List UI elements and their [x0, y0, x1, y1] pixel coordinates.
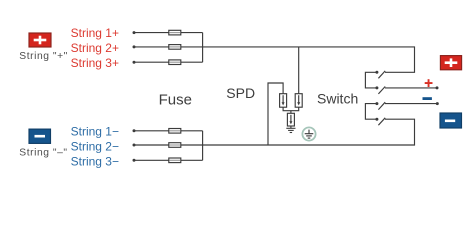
- wire string3-: [134, 159, 203, 161]
- wire negative main bus: [203, 119, 415, 145]
- wire positive bus vertical: [202, 33, 204, 63]
- wire SPD left leg: [268, 83, 283, 145]
- label output minus: [423, 97, 432, 100]
- ground: [286, 128, 295, 132]
- protective earth symbol: [302, 127, 315, 140]
- switch blade1: [378, 71, 385, 78]
- terminal block positive left: [29, 33, 51, 47]
- terminal block positive right: [440, 56, 461, 70]
- fuse element lines: [170, 33, 180, 161]
- fuse F5: [169, 143, 181, 148]
- switch blade3: [378, 102, 385, 109]
- svg-text:Fuse: Fuse: [159, 91, 192, 108]
- wire positive main bus: [203, 47, 415, 72]
- node string1+ terminal: [133, 31, 136, 34]
- node positive output: [436, 86, 439, 89]
- svg-text:String 3+: String 3+: [71, 56, 119, 70]
- svg-text:String 2−: String 2−: [71, 140, 119, 154]
- node switch contact4: [375, 118, 378, 121]
- switch blade4: [378, 118, 385, 125]
- node string2+ terminal: [133, 45, 136, 48]
- node switch contact1: [375, 71, 378, 74]
- wire string1+: [134, 32, 203, 34]
- switch pole2 bracket: [365, 104, 377, 120]
- wire negative bus vertical: [202, 131, 204, 161]
- varistor SPD left: [280, 94, 287, 108]
- svg-text:Switch: Switch: [317, 90, 358, 106]
- switch pole1 bracket: [365, 72, 377, 88]
- label output plus: [425, 79, 433, 87]
- wire SPD join: [283, 107, 299, 111]
- svg-text:String 1+: String 1+: [71, 26, 119, 40]
- switch blade2: [378, 87, 385, 94]
- fuse F3: [169, 60, 181, 65]
- node switch contact2: [375, 86, 378, 89]
- fuse F2: [169, 45, 181, 50]
- fuse F6: [169, 158, 181, 163]
- varistor SPD center: [287, 113, 294, 126]
- wire positive output: [385, 87, 437, 89]
- svg-text:String "+": String "+": [19, 51, 68, 62]
- svg-text:String 1−: String 1−: [71, 125, 119, 139]
- varistor SPD right: [295, 94, 302, 108]
- svg-text:String "–": String "–": [19, 148, 67, 159]
- wire SPD right leg: [298, 47, 300, 94]
- node negative output: [436, 102, 439, 105]
- terminal block negative left: [29, 129, 51, 143]
- wire string2-: [134, 144, 203, 146]
- node string3+ terminal: [133, 61, 136, 64]
- fuse F4: [169, 129, 181, 134]
- terminal block negative right: [440, 113, 462, 128]
- wire string1-: [134, 130, 203, 132]
- wire to ground: [290, 126, 292, 128]
- wire SPD center drop: [290, 111, 292, 114]
- fuse F1: [169, 30, 181, 35]
- wire string3+: [134, 61, 203, 63]
- node string3- terminal: [133, 159, 136, 162]
- svg-text:SPD: SPD: [226, 85, 255, 101]
- wire string2+: [134, 46, 203, 48]
- wire negative output: [385, 103, 437, 105]
- svg-text:String 3−: String 3−: [71, 155, 119, 169]
- node string1- terminal: [133, 129, 136, 132]
- node string2- terminal: [133, 144, 136, 147]
- svg-text:String 2+: String 2+: [71, 41, 119, 55]
- node switch contact3: [375, 102, 378, 105]
